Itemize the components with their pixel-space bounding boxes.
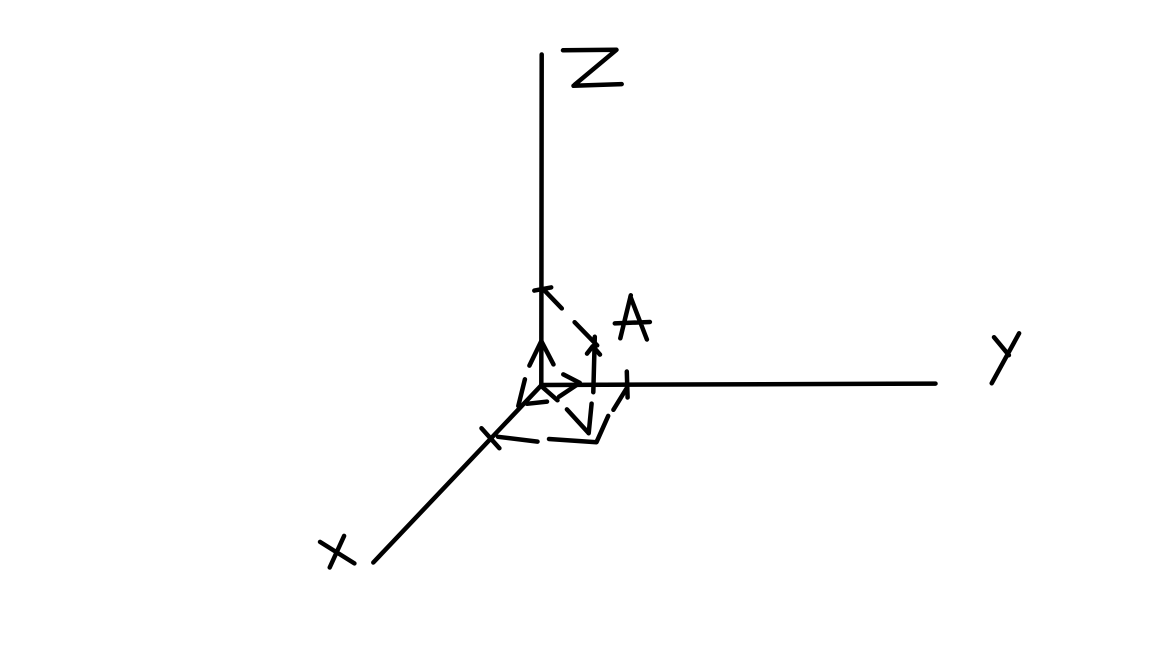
tick on x-axis: [482, 428, 500, 448]
small arrow tip on z-axis (crossbar): [534, 287, 551, 290]
arrowhead up on z-axis: [529, 341, 553, 366]
label x: [320, 536, 354, 568]
vertical dashed line lower shaft: [589, 404, 592, 434]
label y: [992, 333, 1019, 383]
right diagonal dash: [613, 389, 626, 410]
diagonal dash: [575, 322, 598, 345]
label Z: [563, 50, 622, 86]
z-axis: [539, 55, 544, 386]
vertical dashed line shaft: [593, 337, 595, 392]
small arrow shaft dash: [545, 291, 562, 308]
y-axis: [541, 384, 935, 385]
down arrowhead left barb: [567, 409, 589, 433]
x-axis: [373, 385, 541, 562]
arrowhead right on y-axis: [542, 374, 580, 400]
up arrowhead barbs near A: [587, 346, 600, 354]
label A: [615, 295, 650, 339]
tick on y-axis: [625, 372, 630, 398]
arrowhead down-left on x-axis: [518, 379, 547, 406]
bottom dash 2 with corner riser: [549, 416, 608, 442]
bottom dash 1: [498, 437, 538, 442]
